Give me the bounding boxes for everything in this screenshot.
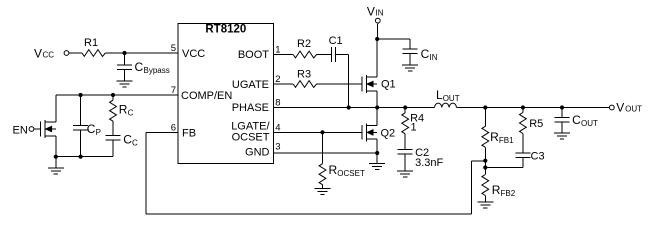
wire FB bottom rail [146, 213, 471, 215]
pin number 7 [171, 85, 176, 96]
resistor ROCSET [319, 132, 365, 184]
wire VIN to Q1 drain [376, 39, 378, 77]
wire R4 to C2 [404, 134, 406, 150]
capacitor CC [106, 121, 139, 157]
wire phase to Q2 drain [376, 108, 378, 126]
capacitor C3 [515, 151, 544, 163]
wire FB pin stub [146, 131, 178, 133]
svg-text:R1: R1 [84, 37, 98, 49]
terminal VOUT [609, 100, 642, 114]
wire EN MOSFET drain up [55, 95, 57, 122]
node phase Q junction [375, 105, 379, 109]
node Cp top [79, 93, 83, 97]
svg-text:3.3nF: 3.3nF [415, 157, 443, 169]
wire VIN down [376, 23, 379, 39]
svg-text:V: V [34, 47, 42, 61]
svg-text:FB2: FB2 [501, 189, 516, 198]
svg-text:C1: C1 [329, 35, 343, 47]
capacitor C1 [329, 35, 343, 62]
pin number 2 [275, 74, 280, 85]
pin label UGATE [232, 79, 269, 91]
node Cp bottom [79, 155, 83, 159]
svg-text:R: R [492, 183, 501, 197]
resistor R1 [82, 37, 105, 56]
wire RFB1 to node [484, 147, 486, 160]
pin label COMP/EN [181, 90, 232, 102]
wire PHASE rail [274, 107, 435, 109]
wire C1 to phase node [336, 55, 349, 108]
pin number 5 [171, 43, 176, 54]
svg-text:R3: R3 [297, 69, 311, 81]
pin number 3 [275, 141, 280, 152]
svg-text:Bypass: Bypass [144, 66, 170, 75]
node R5 junction [521, 105, 525, 109]
resistor R2 [293, 38, 316, 58]
svg-text:2: 2 [275, 74, 280, 85]
node VCC bypass junction [122, 51, 126, 55]
svg-text:Q1: Q1 [381, 79, 396, 91]
svg-text:PHASE: PHASE [232, 102, 269, 114]
svg-text:OCSET: OCSET [232, 132, 270, 144]
svg-text:FB: FB [182, 127, 196, 139]
svg-text:C: C [87, 122, 96, 136]
wire EN MOSFET source down [55, 136, 57, 157]
terminal VIN [367, 4, 384, 23]
node Rc top [111, 93, 115, 97]
op-amp U1 RT8120 controller box [178, 23, 274, 163]
resistor RFB1 [482, 108, 514, 148]
pin label LGATE/OCSET [231, 121, 270, 144]
pin label FB [182, 127, 196, 139]
svg-text:C3: C3 [531, 151, 545, 163]
ground for CIN [402, 65, 418, 71]
wire R1 to VCC pin 5 [105, 52, 178, 54]
svg-text:5: 5 [171, 43, 176, 54]
node C1 phase junction [347, 105, 351, 109]
svg-text:3: 3 [275, 141, 280, 152]
svg-text:COMP/EN: COMP/EN [181, 90, 232, 102]
capacitor C2 [398, 147, 444, 171]
svg-text:CC: CC [43, 51, 55, 60]
svg-text:P: P [96, 128, 101, 137]
transistor EN MOSFET [41, 120, 56, 138]
svg-text:4: 4 [275, 122, 280, 133]
inductor LOUT [435, 88, 460, 108]
svg-text:OUT: OUT [443, 94, 460, 103]
resistor R5 [520, 108, 544, 134]
pin number 8 [275, 98, 280, 109]
ground for Q2 [369, 153, 385, 169]
svg-text:V: V [367, 4, 375, 18]
svg-text:R5: R5 [529, 118, 543, 130]
resistor R3 [293, 69, 316, 88]
svg-text:C: C [128, 109, 134, 118]
pin label PHASE [232, 102, 269, 114]
pin label VCC [182, 48, 205, 60]
left bottom rail wire [56, 156, 113, 158]
node phase R4 junction [403, 105, 407, 109]
svg-text:OCSET: OCSET [337, 169, 365, 178]
svg-text:6: 6 [171, 122, 176, 133]
node VIN junction [375, 37, 379, 41]
capacitor CBypass [117, 53, 170, 81]
svg-text:1: 1 [275, 45, 280, 56]
ground for ROCSET [315, 185, 331, 195]
svg-text:V: V [616, 100, 624, 114]
wire FB right vertical [470, 161, 472, 214]
svg-text:IN: IN [430, 53, 438, 62]
capacitor CIN [403, 47, 438, 65]
svg-text:Q2: Q2 [381, 128, 396, 140]
wire Q2 source down [376, 139, 378, 153]
ground for CBypass [117, 81, 133, 87]
svg-text:7: 7 [171, 85, 176, 96]
svg-text:R: R [329, 163, 338, 177]
svg-text:BOOT: BOOT [238, 49, 269, 61]
resistor R4 [402, 108, 424, 134]
node RFB1 junction [483, 105, 487, 109]
wire VCC terminal to R1 [69, 52, 82, 54]
wire UGATE pin to R3 [274, 83, 294, 85]
svg-text:FB1: FB1 [499, 136, 514, 145]
pin number 1 [275, 45, 280, 56]
capacitor COUT [555, 108, 599, 134]
svg-text:OUT: OUT [625, 104, 642, 113]
svg-text:IN: IN [376, 8, 384, 17]
wire BOOT pin to R2 [274, 54, 294, 56]
node FB tap [483, 159, 487, 163]
wire FB to divider node [471, 160, 485, 162]
wire R2 to C1 [317, 54, 332, 56]
resistor RFB2 [482, 175, 516, 199]
ground for RFB2 [477, 196, 493, 209]
svg-text:R: R [490, 130, 499, 144]
svg-text:VCC: VCC [182, 48, 205, 60]
svg-text:C: C [421, 47, 430, 61]
wire FB nodes [484, 161, 486, 175]
svg-text:RT8120: RT8120 [205, 24, 246, 36]
svg-text:C: C [123, 133, 132, 147]
svg-text:8: 8 [275, 98, 280, 109]
svg-text:R2: R2 [297, 38, 311, 50]
wire GND pin to Q2 source [274, 152, 378, 154]
wire R5 to C3 [522, 134, 524, 154]
wire R3 to Q1 gate [317, 83, 362, 85]
pin number 4 [275, 122, 280, 133]
wire COMP/EN rail [56, 94, 178, 96]
svg-text:EN: EN [13, 125, 28, 137]
svg-text:R: R [119, 103, 128, 117]
wire EN to gate [34, 128, 41, 130]
wire FB left vertical [145, 132, 147, 214]
resistor RC [110, 95, 134, 121]
svg-text:UGATE: UGATE [232, 79, 269, 91]
svg-text:C: C [132, 139, 138, 148]
pin number 6 [171, 122, 176, 133]
terminal EN input [13, 125, 34, 137]
svg-text:GND: GND [245, 147, 270, 159]
terminal VCC input [34, 47, 69, 61]
ground for C2 [397, 171, 413, 177]
transistor Q2 [362, 123, 395, 141]
wire Q1 source to phase [376, 91, 378, 108]
ground for COUT [554, 133, 570, 139]
pin label GND [245, 147, 270, 159]
pin label BOOT [238, 49, 269, 61]
transistor Q1 [362, 75, 396, 93]
svg-text:OUT: OUT [581, 119, 598, 128]
node Q2 source GND junction [375, 151, 379, 155]
wire C3 to FB node [485, 158, 523, 168]
wire output rail [457, 107, 610, 109]
svg-text:1: 1 [411, 122, 417, 134]
wire VIN to CIN [377, 39, 410, 49]
node C3 return [483, 165, 487, 169]
capacitor CP [73, 95, 101, 157]
wire LGATE pin to Q2 gate [274, 131, 362, 133]
svg-text:C: C [135, 60, 144, 74]
node ROCSET junction [320, 130, 324, 134]
svg-text:C: C [572, 113, 581, 127]
node EN source ground junction [54, 155, 58, 159]
node COUT junction [560, 105, 564, 109]
ground left section [48, 157, 64, 174]
